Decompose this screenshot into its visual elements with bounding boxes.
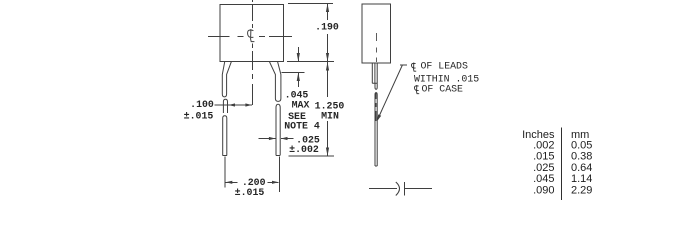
svg-text:.002: .002 (533, 139, 554, 151)
arrow .200 pointing left (226, 181, 233, 184)
side view lead below with break (375, 83, 377, 89)
vertical centerline of front view (252, 0, 254, 105)
right lead extension line below (278, 157, 280, 193)
arrow 1.250 bottom pointing down (326, 148, 329, 157)
svg-text:OF LEADS: OF LEADS (421, 61, 468, 72)
centerline glyph line 3 (414, 85, 419, 94)
lead end extension line (289, 155, 335, 157)
capacitor symbol (369, 182, 432, 196)
svg-text:.190: .190 (315, 22, 339, 33)
arrow .100 left (points left at lead) (229, 103, 235, 106)
dimension line .100 (215, 104, 252, 106)
body bottom extension line (287, 61, 334, 63)
svg-text:±.002: ±.002 (289, 144, 319, 155)
svg-text:MAX: MAX (292, 100, 310, 111)
svg-text:1.14: 1.14 (571, 173, 592, 185)
svg-text:NOTE 4: NOTE 4 (284, 121, 320, 132)
side view body outline (362, 4, 391, 63)
arrow 1.250 top pointing up (326, 62, 329, 71)
dimension line .200 (226, 181, 279, 183)
body top extension line (288, 3, 333, 5)
leader line to side view lead (378, 65, 407, 120)
arrowheads front view (226, 4, 330, 184)
left lead of front view (222, 62, 231, 97)
dimension line 1.250 vertical (327, 62, 329, 156)
svg-text:.015: .015 (533, 151, 554, 163)
svg-text:±.015: ±.015 (184, 110, 214, 121)
right lead of front view (270, 62, 281, 102)
conversion table divider (561, 128, 563, 201)
arrow .045 pointing up at kink line (297, 73, 300, 82)
arrow .190 bottom pointing down (326, 53, 329, 62)
horizontal centerline of front view (208, 36, 292, 38)
arrow .100 right (points right at centerline) (245, 103, 251, 106)
dimension line .045 vertical (297, 47, 299, 87)
svg-text:0.05: 0.05 (571, 139, 592, 151)
svg-text:2.29: 2.29 (571, 185, 592, 197)
svg-text:.025: .025 (533, 162, 554, 174)
centerline symbol inside body (248, 29, 255, 41)
svg-text:.090: .090 (533, 185, 554, 197)
centerline glyph line 1 (411, 63, 416, 72)
leader arrowhead (377, 114, 381, 121)
front view body outline (220, 5, 284, 62)
svg-text:.100: .100 (190, 99, 214, 110)
svg-text:±.015: ±.015 (235, 187, 265, 198)
side view dashed centerline (376, 33, 378, 62)
svg-text:0.64: 0.64 (571, 162, 592, 174)
arrow .045 pointing down at body bottom (297, 53, 300, 62)
left lead extension line below (224, 157, 226, 188)
svg-text:OF CASE: OF CASE (422, 83, 464, 94)
arrow .025 pointing right (269, 137, 276, 140)
lead kink extension line (282, 72, 305, 74)
svg-text:0.38: 0.38 (571, 151, 592, 163)
svg-text:.045: .045 (533, 173, 554, 185)
leader note text: CL OF LEADS WITHIN .015 CL OF CASE (411, 63, 419, 94)
arrow .200 pointing right (272, 181, 279, 184)
arrow .190 top pointing up (326, 4, 329, 13)
svg-text:MIN: MIN (321, 110, 339, 121)
side view (362, 4, 391, 121)
side view lead cluster near body (372, 63, 377, 83)
arrow .025 pointing left (281, 137, 288, 140)
dimension line .025 (259, 138, 294, 140)
dimension line .190 vertical (327, 4, 329, 62)
